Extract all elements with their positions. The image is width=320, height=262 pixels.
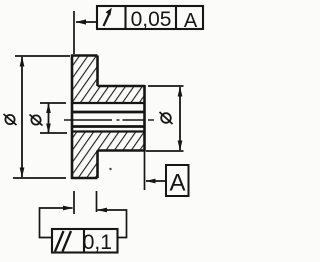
datum leader arrowhead [146, 179, 156, 184]
bore dimension line [48, 104, 50, 134]
parallelism leader left wire [40, 208, 73, 238]
svg-text:0,1: 0,1 [83, 231, 112, 254]
extension line right face below [96, 191, 98, 212]
centerline axis [64, 119, 154, 121]
bore inner lines [72, 112, 145, 127]
datum A box [166, 165, 189, 196]
svg-text:A: A [169, 170, 185, 197]
hatching hub lower [98, 132, 145, 151]
svg-text:0,05: 0,05 [131, 8, 172, 31]
parallelism symbol [55, 231, 71, 252]
bore dimension extension bottom [40, 132, 67, 134]
part outline hub [98, 85, 145, 152]
part outline flange [71, 55, 98, 180]
parallelism leader right wire [98, 210, 127, 238]
bore band edges [72, 103, 145, 132]
bore diameter symbol [30, 115, 43, 126]
right dim arrow down [178, 141, 183, 151]
left outer dim arrow down [20, 168, 25, 178]
parallelism leader left arrowhead [63, 206, 73, 211]
left outer dimension extension bottom [13, 177, 66, 179]
extension line left face below [73, 191, 75, 214]
right dimension extension top [148, 85, 184, 87]
extension line face top [73, 11, 75, 54]
hatching flange upper [72, 56, 98, 104]
left outer diameter symbol [4, 114, 17, 125]
hatching flange lower [72, 132, 98, 179]
bore dim arrow down [46, 124, 51, 134]
right dimension line [179, 87, 181, 150]
left outer dimension extension top [15, 55, 70, 57]
feature control frame runout 0,05 A [97, 6, 203, 29]
hatching hub upper [98, 86, 145, 103]
top leader arrowhead [76, 19, 87, 24]
parallelism leader right arrowhead [97, 208, 107, 213]
parallelism frame // 0,1 [52, 229, 118, 253]
right dimension extension bottom [146, 150, 184, 152]
top leader wire [76, 21, 97, 23]
svg-text:A: A [184, 10, 198, 32]
datum extension line below hub face [144, 151, 146, 190]
right dim arrow up [178, 87, 183, 97]
bore dimension extension top [40, 102, 66, 104]
circular runout symbol [104, 8, 112, 26]
datum leader wire [146, 180, 166, 182]
left outer dim arrow up [20, 57, 25, 67]
right diameter symbol [160, 112, 173, 124]
stray scan speck [109, 168, 111, 170]
bore dim arrow up [46, 103, 51, 113]
left outer dimension line [21, 57, 23, 177]
